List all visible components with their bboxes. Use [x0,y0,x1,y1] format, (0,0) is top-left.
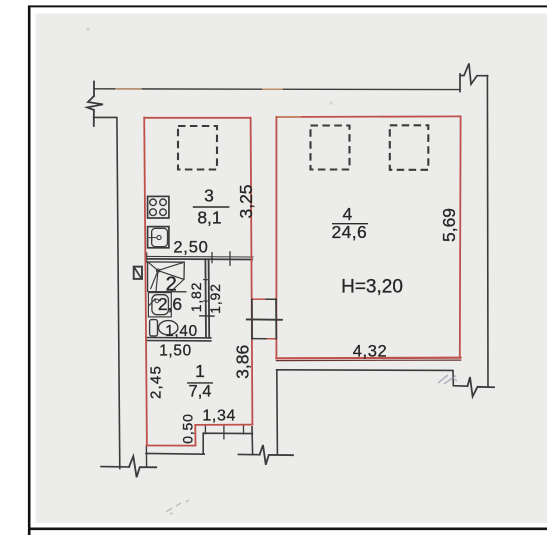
top outer wall [94,88,460,91]
svg-text:4,32: 4,32 [353,342,388,360]
bathroom right wall outer face [208,259,211,337]
page frame bottom border [28,527,547,530]
faint paper speck top-middle [329,101,333,105]
dimension tick at x212 [211,253,213,263]
bottom wall segment right of stair opening [238,453,259,455]
ventilation shaft room 4 left (dashed) [311,126,350,170]
red wall room 1 bottom [147,445,196,447]
short wall stub below room 1 corner [145,447,147,467]
red door top jamb part [252,298,266,300]
red wall room 4 top [277,115,461,118]
stove burner bottom-right [160,209,167,216]
svg-text:1,92: 1,92 [207,283,223,313]
door leaf line [247,318,282,320]
bathtub outline [148,262,186,292]
door jamb room 4 side [275,299,277,339]
kitchen sink body [148,227,169,248]
toilet bowl [159,321,178,335]
kitchen sink tap knob [157,235,161,239]
washbasin tap knob [155,299,159,303]
kitchen sink bowl [152,228,168,246]
wall break symbol bottom-left [129,456,156,477]
room 4 fraction line [332,223,368,225]
entry door tick centre [223,425,225,438]
red wall step vertical [194,425,196,446]
bathroom bottom wall upper face [146,337,211,339]
faint pencil scribble bottom-right [438,375,457,384]
svg-text:3,86: 3,86 [232,345,252,379]
svg-text:H=3,20: H=3,20 [341,276,403,297]
red wall corridor bottom [195,424,252,426]
entry door tick left [204,425,206,433]
svg-text:1: 1 [195,361,205,381]
wall break symbol top-left [87,82,103,127]
room 1 fraction line [187,382,213,384]
stove burner top-left [150,199,157,206]
wall break symbol bottom-centre [260,445,293,465]
corridor wall below red [251,427,254,455]
dimension line 2,50 [146,255,253,258]
wall break symbol top-right [460,64,488,92]
ventilation shaft kitchen (dashed) [178,126,217,170]
page frame left border [28,6,31,535]
outer wall right vertical [486,76,489,387]
svg-text:5,69: 5,69 [439,208,459,242]
bathtub fan lines [148,262,184,291]
kitchen-bathroom dividing wall [146,258,252,261]
bathtub fan node [156,269,159,272]
svg-text:1,34: 1,34 [202,408,236,425]
tick on bath wall y316 [200,315,214,317]
orange tint segment on top wall left [116,88,141,90]
dimension tick at x230 [229,252,231,265]
svg-text:2,45: 2,45 [148,365,165,399]
red wall apartment left side [144,118,147,446]
stove body [148,196,169,218]
stove burner top-right [160,199,167,206]
room 4 bottom wall dark underline [276,359,460,362]
wall break symbol bottom-right [468,377,495,397]
faint pencil scribble bottom-left [166,500,189,514]
bathroom right wall inner face [204,259,207,337]
kitchen sink tap cross [149,234,156,242]
svg-text:1,40: 1,40 [165,323,198,340]
svg-text:4: 4 [343,204,353,224]
orange tint segment room 4 top [278,116,301,118]
red wall room 4 right [459,116,462,357]
dimension tick at x146 [146,253,148,262]
svg-text:8,1: 8,1 [197,208,221,228]
page frame top border [28,5,547,7]
toilet cistern [150,320,158,336]
outer wall left of hall continuation [276,370,279,455]
orange tint segment on top wall middle [263,88,282,90]
bottom wall segment left [101,466,129,468]
door bottom jamb black part [252,338,266,340]
svg-text:2,50: 2,50 [173,238,208,256]
electric panel diagonal [135,268,141,278]
outer wall corner top-left [94,117,120,468]
red wall kitchen-corridor right side [251,118,253,425]
entry wall step [203,433,252,454]
outer wall below room 4 [277,370,468,386]
svg-text:3: 3 [204,185,214,205]
svg-text:3,25: 3,25 [236,184,256,218]
red door bottom jamb part [266,338,276,340]
red wall room 4 bottom [276,357,460,360]
entry door tick right [243,425,245,434]
svg-text:1,82: 1,82 [188,282,204,312]
bathroom bottom wall lower face [146,340,211,342]
room 3 fraction line [193,206,230,208]
svg-text:2,6: 2,6 [158,294,182,314]
door jamb corridor side [251,299,253,339]
svg-text:24,6: 24,6 [331,222,367,242]
room 1 bottom wall outer face [146,452,204,455]
svg-text:1,50: 1,50 [159,342,192,359]
svg-text:7,4: 7,4 [189,382,212,400]
washbasin tap [149,299,155,306]
door top jamb black part [266,298,276,300]
faint paper speck top-left [86,27,89,30]
ventilation shaft room 4 right (dashed) [390,125,429,170]
tick on bath wall y280 [204,279,208,281]
red wall room 4 left [275,117,277,359]
washbasin bowl [152,295,169,315]
red wall kitchen top [145,117,251,119]
tick on bath wall y301 [204,300,208,302]
washbasin body [148,293,171,317]
stove burner bottom-left [150,209,157,216]
electric panel on left wall [134,267,142,279]
svg-text:0,50: 0,50 [179,413,195,443]
svg-text:2: 2 [165,272,176,295]
